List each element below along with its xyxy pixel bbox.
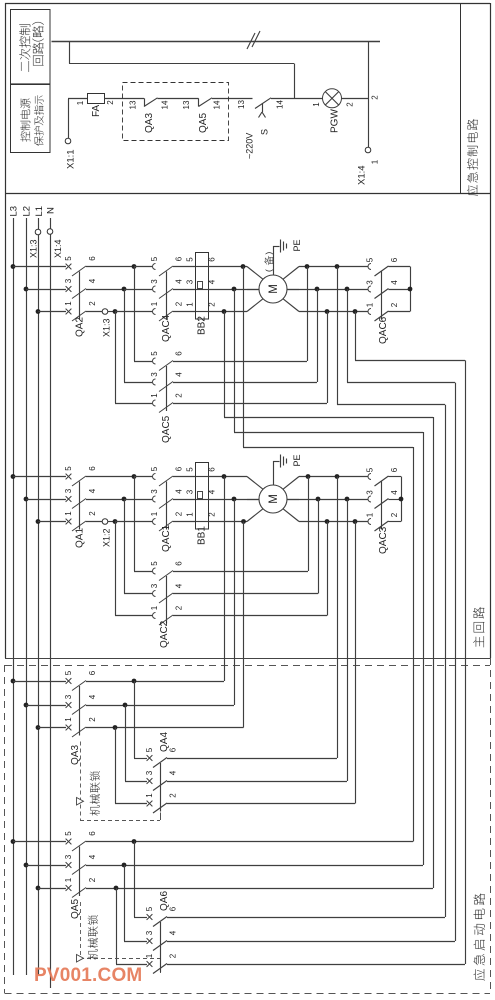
- svg-text:5: 5: [145, 906, 154, 911]
- svg-text:2: 2: [207, 302, 216, 307]
- svg-text:5: 5: [185, 467, 194, 472]
- svg-text:2: 2: [168, 953, 177, 958]
- svg-text:5: 5: [150, 256, 159, 261]
- svg-text:5: 5: [150, 466, 159, 471]
- svg-text:2: 2: [207, 512, 216, 517]
- svg-text:QA3: QA3: [144, 113, 155, 133]
- svg-text:6: 6: [207, 257, 216, 262]
- svg-text:L1: L1: [34, 206, 45, 217]
- svg-text:14: 14: [212, 100, 221, 109]
- svg-text:5: 5: [64, 670, 73, 675]
- svg-text:QA6: QA6: [159, 891, 170, 911]
- svg-text:14: 14: [160, 100, 169, 109]
- svg-text:2: 2: [390, 302, 399, 307]
- svg-text:6: 6: [88, 466, 97, 471]
- svg-text:QA2: QA2: [75, 317, 86, 337]
- svg-text:2: 2: [88, 511, 97, 516]
- svg-text:4: 4: [174, 372, 183, 377]
- svg-text:1: 1: [185, 512, 194, 517]
- svg-text:2: 2: [88, 301, 97, 306]
- svg-text:4: 4: [168, 930, 177, 935]
- svg-text:X1:1: X1:1: [66, 149, 77, 169]
- svg-text:X1:4: X1:4: [53, 239, 63, 258]
- svg-text:PE: PE: [292, 239, 302, 251]
- svg-text:): ): [264, 252, 274, 255]
- svg-text:6: 6: [207, 467, 216, 472]
- svg-text:1: 1: [365, 512, 374, 517]
- svg-text:PV001.COM: PV001.COM: [34, 965, 142, 986]
- svg-text:3: 3: [365, 280, 374, 285]
- svg-text:4: 4: [207, 279, 216, 284]
- svg-text:2: 2: [168, 793, 177, 798]
- svg-text:1: 1: [145, 953, 154, 958]
- svg-text:4: 4: [88, 488, 97, 493]
- svg-text:3: 3: [150, 489, 159, 494]
- svg-text:1: 1: [150, 301, 159, 306]
- svg-text:4: 4: [174, 279, 183, 284]
- svg-text:2: 2: [88, 877, 97, 882]
- svg-text:4: 4: [168, 770, 177, 775]
- svg-text:2: 2: [174, 605, 183, 610]
- svg-text:QA4: QA4: [159, 732, 170, 752]
- svg-text:QA3: QA3: [70, 745, 81, 765]
- svg-text:1: 1: [64, 717, 73, 722]
- svg-text:2: 2: [345, 102, 354, 107]
- svg-text:3: 3: [150, 583, 159, 588]
- svg-text:QAC1: QAC1: [161, 524, 172, 552]
- svg-text:4: 4: [88, 278, 97, 283]
- svg-text:1: 1: [185, 302, 194, 307]
- svg-text:13: 13: [182, 100, 191, 109]
- svg-text:4: 4: [207, 489, 216, 494]
- svg-text:6: 6: [174, 351, 183, 356]
- svg-text:6: 6: [174, 561, 183, 566]
- svg-text:3: 3: [64, 854, 73, 859]
- svg-text:1: 1: [150, 605, 159, 610]
- svg-text:QA5: QA5: [198, 113, 209, 133]
- svg-text:PGW: PGW: [330, 109, 341, 133]
- svg-text:13: 13: [128, 100, 137, 109]
- svg-text:13: 13: [237, 100, 246, 109]
- svg-text:4: 4: [174, 489, 183, 494]
- svg-text:5: 5: [150, 561, 159, 566]
- svg-text:2: 2: [174, 511, 183, 516]
- svg-text:3: 3: [64, 488, 73, 493]
- svg-text:14: 14: [275, 100, 284, 109]
- svg-text:4: 4: [390, 490, 399, 495]
- svg-text:5: 5: [365, 257, 374, 262]
- svg-text:L2: L2: [22, 206, 33, 217]
- svg-text:L3: L3: [9, 206, 20, 217]
- svg-text:1: 1: [150, 511, 159, 516]
- svg-text:6: 6: [174, 256, 183, 261]
- svg-text:~220V: ~220V: [245, 133, 255, 159]
- svg-text:2: 2: [390, 512, 399, 517]
- svg-text:1: 1: [150, 393, 159, 398]
- svg-text:1: 1: [145, 793, 154, 798]
- svg-text:QAC3: QAC3: [378, 526, 389, 554]
- svg-text:5: 5: [64, 831, 73, 836]
- svg-text:1: 1: [365, 302, 374, 307]
- svg-text:X1:3: X1:3: [102, 318, 112, 337]
- svg-text:QA1: QA1: [75, 528, 86, 548]
- svg-text:PE: PE: [292, 454, 302, 466]
- svg-text:QA5: QA5: [70, 899, 81, 919]
- svg-text:2: 2: [174, 393, 183, 398]
- svg-text:1: 1: [64, 877, 73, 882]
- svg-text:5: 5: [150, 351, 159, 356]
- svg-text:3: 3: [150, 372, 159, 377]
- svg-text:5: 5: [64, 256, 73, 261]
- svg-text:S: S: [260, 129, 270, 135]
- svg-text:FA: FA: [91, 104, 102, 117]
- svg-text:5: 5: [185, 257, 194, 262]
- svg-text:3: 3: [64, 278, 73, 283]
- svg-text:4: 4: [88, 694, 97, 699]
- svg-text:X1:4: X1:4: [357, 165, 368, 185]
- svg-text:1: 1: [64, 301, 73, 306]
- svg-text:1: 1: [370, 159, 379, 164]
- svg-text:1: 1: [312, 102, 321, 107]
- svg-text:QAC6: QAC6: [378, 316, 389, 344]
- svg-text:6: 6: [88, 831, 97, 836]
- svg-text:N: N: [46, 207, 57, 214]
- svg-text:X1:3: X1:3: [29, 239, 39, 258]
- svg-text:4: 4: [390, 280, 399, 285]
- svg-text:6: 6: [88, 256, 97, 261]
- svg-text:6: 6: [390, 467, 399, 472]
- svg-text:5: 5: [145, 747, 154, 752]
- svg-text:QAC5: QAC5: [161, 415, 172, 443]
- svg-text:4: 4: [88, 854, 97, 859]
- svg-text:2: 2: [106, 100, 115, 105]
- svg-text:5: 5: [64, 466, 73, 471]
- svg-text:3: 3: [145, 770, 154, 775]
- svg-text:3: 3: [185, 489, 194, 494]
- svg-text:4: 4: [174, 583, 183, 588]
- svg-text:2: 2: [370, 95, 379, 100]
- svg-text:QAC4: QAC4: [161, 314, 172, 342]
- svg-text:5: 5: [365, 467, 374, 472]
- svg-text:3: 3: [145, 930, 154, 935]
- svg-text:2: 2: [174, 301, 183, 306]
- svg-text:QAC2: QAC2: [159, 620, 170, 648]
- svg-text:2: 2: [88, 717, 97, 722]
- svg-text:BB2: BB2: [197, 316, 208, 335]
- svg-text:M: M: [268, 284, 280, 294]
- svg-text:3: 3: [185, 279, 194, 284]
- svg-text:X1:2: X1:2: [102, 528, 112, 547]
- svg-text:BB1: BB1: [197, 526, 208, 545]
- svg-text:(: (: [264, 269, 274, 272]
- svg-text:1: 1: [64, 511, 73, 516]
- svg-text:6: 6: [88, 670, 97, 675]
- svg-text:6: 6: [174, 466, 183, 471]
- svg-text:3: 3: [365, 490, 374, 495]
- svg-text:1: 1: [76, 100, 85, 105]
- svg-text:M: M: [268, 494, 280, 504]
- svg-text:6: 6: [390, 257, 399, 262]
- svg-text:3: 3: [150, 279, 159, 284]
- svg-text:3: 3: [64, 694, 73, 699]
